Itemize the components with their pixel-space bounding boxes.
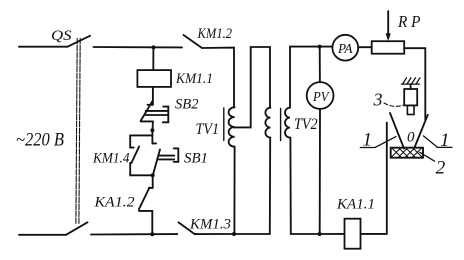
node D junction dot (151, 173, 155, 177)
node C junction dot (150, 128, 154, 132)
transformer TV1 core bar (223, 108, 225, 141)
coil KM1.1 (rectangle) (137, 70, 171, 87)
wire bottom rail to TV1 (195, 233, 234, 235)
wire node C down to SB1 top terminal (151, 130, 153, 143)
pushbutton SB1 (NO start button) (152, 143, 178, 175)
electrode holder support hatching (402, 78, 421, 84)
control branch: wire node A to coil KM1.1 (152, 47, 154, 70)
wire node G to coil KA1.1 (320, 233, 345, 235)
coil KA1.1 (rectangle) (345, 219, 361, 249)
rheostat RP slider arrow (386, 11, 391, 41)
electrode holder stem (410, 84, 412, 89)
weld wire left diagonal (390, 113, 404, 149)
contact KA1.2 blade (139, 188, 150, 210)
wire TV2 secondary top lead to node B (290, 47, 332, 108)
contact KM1.2 blade (184, 35, 203, 48)
svg-text:0: 0 (407, 129, 415, 145)
rheostat RP (rectangle) (372, 41, 405, 54)
voltmeter PV (circle) (307, 82, 334, 109)
electrode (stub below holder) (407, 105, 414, 114)
contact KM1.4 fixed terminal tick (130, 147, 133, 149)
wire coil KM1.1 to button SB2 (152, 87, 154, 105)
contact KM1.3 blade (179, 222, 195, 234)
wire top rail middle segment (94, 46, 183, 48)
wire bottom rail left segment (19, 234, 66, 236)
weld wire right diagonal (415, 115, 428, 148)
svg-text:~220 B: ~220 B (16, 130, 64, 150)
label 1 left with underline and leader (360, 129, 396, 150)
voltmeter PV branch wire upper (319, 47, 321, 82)
node E junction dot (bottom rail / control branch) (150, 232, 154, 236)
svg-text:R P: R P (397, 12, 420, 31)
transformer TV1 winding (229, 107, 235, 146)
wire top rail to TV1 (202, 48, 234, 108)
wire KM1.4 bottom to node D (130, 163, 153, 176)
svg-text:QS: QS (51, 28, 72, 44)
wire KA1.1 to left riser (361, 123, 387, 234)
label 1 right with underline and leader (423, 130, 452, 151)
contact KM1.4 blade (131, 146, 139, 163)
node F junction dot (bottom rail / TV2 primary return) (232, 232, 236, 236)
wire branch to KM1.4 (upper horizontal) (130, 135, 152, 147)
wire bottom link TV1 to TV2 (234, 233, 270, 235)
node B junction dot (318, 45, 322, 49)
svg-text:KM1.2: KM1.2 (197, 26, 232, 42)
wire TV2 primary bottom to bottom rail (269, 138, 271, 234)
node A junction dot (top rail / control branch) (152, 45, 156, 49)
voltmeter PV branch wire lower (319, 109, 321, 234)
pushbutton SB2 (NC stop button) (141, 101, 169, 123)
switch QS mechanical linkage (double line) (76, 39, 80, 224)
wire SB2 to node C (152, 121, 154, 130)
switch QS pole 1 blade (68, 36, 91, 47)
transformer TV2 primary winding (265, 108, 270, 138)
wire bottom rail middle segment (91, 233, 177, 235)
svg-text:PV: PV (312, 90, 330, 105)
svg-text:KM1.3: KM1.3 (189, 216, 231, 232)
svg-text:1: 1 (440, 130, 450, 151)
workpiece 2 (hatched block) (391, 148, 423, 158)
contact KA1.2 terminal tick (149, 187, 153, 189)
transformer TV2 core bar (280, 109, 282, 141)
wire TV1 winding bottom to bottom rail (233, 147, 235, 234)
label 2 with leader (420, 152, 446, 178)
switch QS pole 2 blade (66, 222, 88, 235)
svg-text:KM1.4: KM1.4 (92, 151, 129, 167)
wire TV1 tap to TV2 primary (bridge) (234, 47, 271, 127)
svg-text:3: 3 (373, 90, 383, 110)
svg-text:SB1: SB1 (184, 150, 208, 166)
contact KA1.2 fixed terminal (152, 175, 154, 188)
node G junction dot (318, 232, 322, 236)
electrode holder 3 (body rectangle) (404, 89, 417, 105)
ammeter PA (circle) (332, 35, 358, 61)
svg-text:KA1.1: KA1.1 (336, 196, 375, 212)
svg-text:KM1.1: KM1.1 (175, 71, 213, 87)
wire TV2 secondary bottom lead to bottom rail (290, 138, 319, 234)
wire RP to right riser (404, 48, 425, 119)
wire PA to rheostat RP (358, 46, 372, 48)
svg-text:KA1.2: KA1.2 (93, 195, 134, 211)
svg-text:TV1: TV1 (196, 121, 220, 138)
svg-text:PA: PA (337, 42, 353, 57)
svg-text:SB2: SB2 (175, 96, 199, 112)
svg-text:TV2: TV2 (294, 116, 318, 133)
svg-text:2: 2 (436, 157, 446, 178)
wire top rail left segment (19, 46, 68, 48)
label 3 leader (dashed) (384, 103, 404, 106)
transformer TV2 secondary winding (285, 108, 290, 138)
wire KA1.2 bottom to node E (139, 211, 152, 234)
